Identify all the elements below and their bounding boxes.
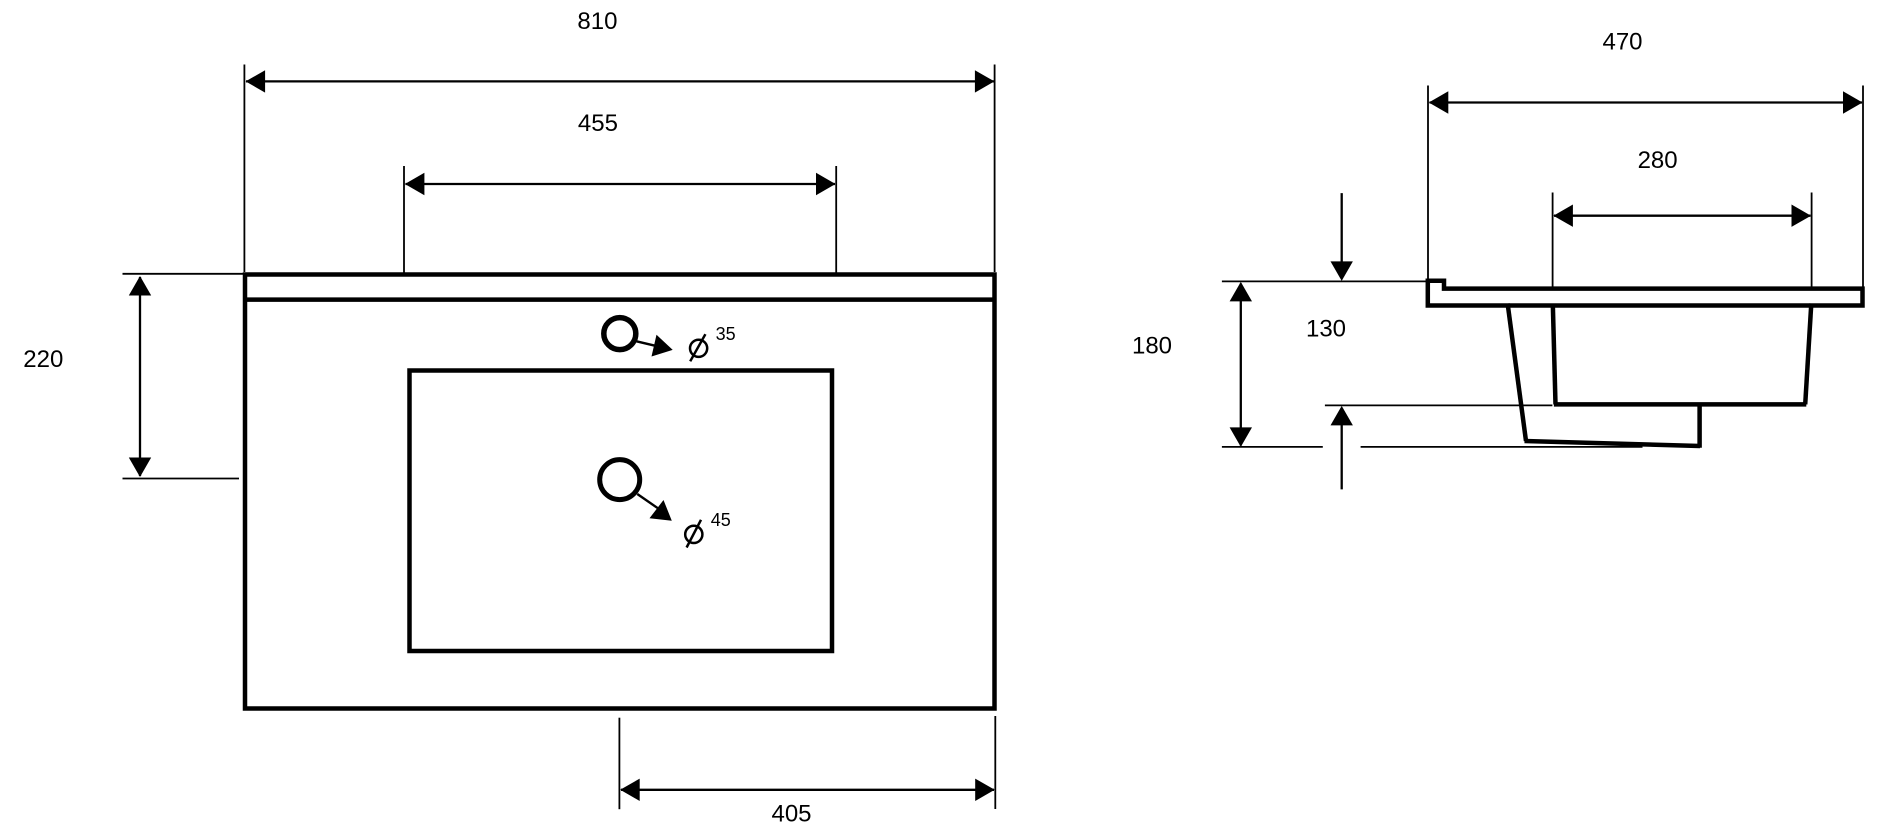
reference line lowest bottom, left segment xyxy=(1222,446,1323,448)
bowl inner left wall xyxy=(1553,304,1556,405)
svg-text:180: 180 xyxy=(1132,333,1172,360)
svg-text:220: 220 xyxy=(23,346,63,373)
svg-text:470: 470 xyxy=(1602,29,1642,56)
dimension 470: dimension line with arrows xyxy=(1429,91,1863,113)
back edge strip line of countertop xyxy=(245,297,995,302)
leader arrow to d45 label xyxy=(637,494,672,521)
faucet hole circle (d35) xyxy=(604,318,636,350)
diameter symbol for 45 xyxy=(685,520,702,548)
dimension 405: dimension line with arrows xyxy=(620,779,995,801)
trap bottom xyxy=(1525,441,1701,446)
reference line top (counter level) xyxy=(1222,280,1428,282)
dimension 280: dimension line with arrows xyxy=(1553,205,1811,227)
dimension 180: double arrow xyxy=(1230,282,1252,447)
dimension 455: extension lines xyxy=(403,166,405,273)
dimension 810: dimension line with arrows xyxy=(246,70,995,92)
reference line bowl inner bottom xyxy=(1325,404,1553,406)
bowl bottom xyxy=(1554,402,1806,407)
diameter symbol for 35 xyxy=(690,334,707,361)
reference line lowest bottom, right segment xyxy=(1361,446,1643,448)
basin cutout inner rectangle xyxy=(410,371,833,652)
svg-text:280: 280 xyxy=(1638,147,1678,174)
dimension 280: extension lines xyxy=(1552,193,1554,288)
svg-text:405: 405 xyxy=(771,801,811,828)
washbasin outer rectangle (top view) xyxy=(245,275,995,709)
dimension 220: dimension line with arrows xyxy=(129,276,151,477)
trap right wall xyxy=(1697,403,1702,448)
svg-text:45: 45 xyxy=(711,510,731,530)
dimension 455: dimension line with arrows xyxy=(405,173,836,195)
dimension 130: up arrow xyxy=(1331,406,1353,490)
svg-text:35: 35 xyxy=(716,324,736,344)
svg-text:810: 810 xyxy=(577,8,617,35)
bowl right wall xyxy=(1805,304,1811,405)
svg-text:130: 130 xyxy=(1306,315,1346,342)
drain hole circle (d45) xyxy=(600,460,640,500)
svg-text:455: 455 xyxy=(578,110,618,137)
leader arrow to d35 label xyxy=(637,335,673,357)
dimension 220: extension lines xyxy=(123,273,245,275)
outer skirt left slanted wall xyxy=(1508,304,1526,442)
dimension 810: extension lines xyxy=(243,65,245,273)
dimension 130: down arrow xyxy=(1331,193,1353,281)
dimension 470: extension lines xyxy=(1427,86,1429,280)
dimension 405: extension lines xyxy=(618,718,620,810)
countertop slab profile with back lip xyxy=(1428,281,1863,306)
